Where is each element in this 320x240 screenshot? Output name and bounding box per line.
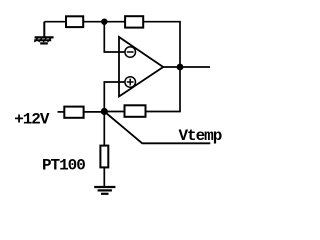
wire R3 to node B	[104, 111, 124, 113]
op-amp U1	[119, 37, 163, 97]
output node dot	[177, 64, 184, 71]
resistor R5 PT100 element	[100, 146, 108, 168]
wire node B down to PT100 resistor	[103, 112, 105, 146]
wire non-inverting input to node B	[104, 82, 124, 112]
svg-text:Vtemp: Vtemp	[179, 127, 222, 145]
ground GND2	[94, 187, 115, 194]
wire R5 to ground	[103, 167, 105, 187]
wire node A to inverting input	[104, 22, 124, 52]
Vtemp leader line	[104, 112, 210, 144]
wire op-amp output	[163, 66, 210, 68]
resistor R1	[66, 16, 83, 27]
node A junction dot	[101, 19, 107, 25]
ground GND1	[34, 22, 53, 44]
svg-text:+12V: +12V	[14, 111, 50, 129]
node B junction dot	[101, 108, 108, 115]
wire R1 to node A	[83, 21, 104, 23]
resistor R3	[125, 105, 146, 117]
resistor R4	[64, 107, 83, 118]
resistor R2	[125, 16, 143, 27]
wire R2 to output node (feedback)	[143, 22, 180, 67]
wire +12V stub to R4	[58, 111, 65, 113]
wire output node down to R3	[146, 67, 181, 112]
wire node A to R2	[104, 21, 125, 23]
wire ground to R1	[44, 21, 66, 23]
svg-text:PT100: PT100	[42, 157, 85, 175]
wire R4 to node B	[84, 111, 105, 113]
